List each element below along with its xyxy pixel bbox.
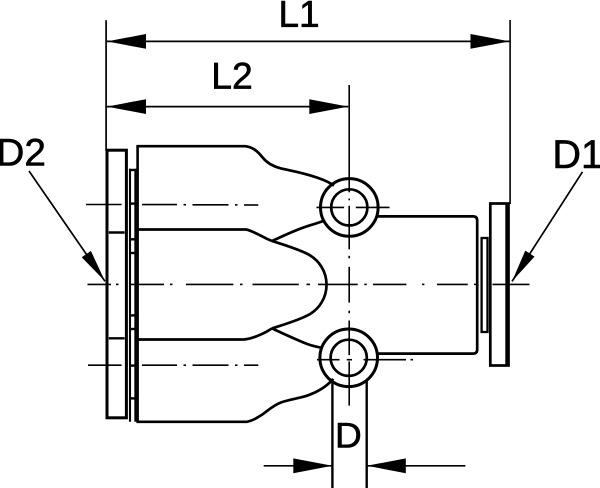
collet D2 bar 4 (129, 314, 136, 316)
dimension L1 label (282, 1, 318, 27)
flange D2 inner line lower (109, 337, 125, 339)
neck curve to top port (272, 221, 324, 241)
bottom tube right edge (366, 381, 368, 488)
body left edge (136, 146, 139, 422)
body right section outline (377, 216, 477, 353)
collet D2 bar 6 (129, 397, 136, 399)
collet D1 (right plate) (482, 238, 488, 332)
centerline main axis (88, 283, 530, 285)
centerline top branch (left) (86, 204, 258, 207)
bottom tube left edge (331, 380, 333, 488)
dimension L1 right extension line (509, 20, 511, 204)
centerline top port circle (317, 206, 345, 208)
collet D2 bar 5 (129, 328, 136, 330)
dimension D left arrowhead (293, 458, 332, 473)
collet D2 bar top-port crossing (129, 202, 136, 204)
dimension L2 label (214, 63, 251, 89)
release flange D1 (right) (490, 204, 508, 366)
dimension L2 left arrowhead (107, 99, 146, 114)
dimension D right arrowhead (367, 458, 406, 473)
dimension L2 line (107, 106, 348, 108)
leader arrowhead D1 (512, 251, 535, 282)
centerline bottom port circle (317, 359, 413, 361)
dimension L1 right arrowhead (471, 34, 510, 49)
collet D2 bar bottom-port crossing (129, 364, 136, 366)
dimension L1 line (107, 40, 510, 42)
bottom port inner circle (331, 340, 367, 376)
leader line D2 (29, 171, 105, 281)
body outline top branch upper edge (136, 146, 334, 185)
collet D2 left edge (129, 169, 131, 422)
dimension D right line (367, 465, 466, 467)
dimension L1 left arrowhead (107, 34, 146, 49)
body middle bulb (272, 241, 327, 328)
dimension L1 left extension line (105, 20, 107, 151)
flange D2 inner line upper (109, 231, 125, 233)
top port outer circle (321, 179, 379, 237)
collet D2 bar 1 (129, 169, 136, 171)
centerline vertical ports / L2 extension (348, 85, 350, 406)
dimension D label (338, 423, 360, 448)
body divider top branch lower edge (136, 230, 272, 242)
body outline bottom branch lower edge (136, 379, 333, 422)
collet D2 right edge (134, 169, 136, 422)
flange D1 inner edge line (505, 205, 508, 365)
dimension L2 right arrowhead (309, 99, 348, 114)
release flange D2 (left) (107, 150, 126, 418)
top port inner circle (331, 189, 367, 225)
label D2 (0, 139, 44, 166)
leader arrowhead D2 (82, 251, 105, 281)
collet D2 bar 3 (129, 252, 136, 254)
bottom port outer circle (320, 329, 378, 387)
leader line D1 (512, 172, 583, 282)
label D1 (556, 140, 600, 168)
neck curve to bottom port (272, 328, 322, 348)
dimension D left line (264, 465, 333, 467)
centerline bottom branch (left) (88, 364, 258, 366)
body divider bottom branch upper edge (136, 328, 272, 339)
collet D2 bar 2 (129, 238, 136, 240)
